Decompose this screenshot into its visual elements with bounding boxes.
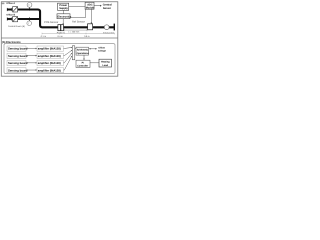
box Electronics: [57, 14, 70, 19]
bar end cap: [114, 24, 115, 31]
svg-text:Operations: Operations: [77, 52, 90, 55]
svg-text:Load: Load: [103, 64, 109, 67]
electronics enclosure box: [4, 44, 115, 74]
MUX box: [72, 46, 75, 60]
sensing board box 1: [7, 46, 26, 51]
svg-text:(a): (a): [2, 2, 5, 5]
wire amplifier 3 to MUX: [64, 54, 72, 63]
svg-text:Offset: Offset: [98, 46, 105, 49]
wire MUX to arithmetic: [75, 48, 76, 50]
amplifier box 2: [37, 53, 64, 58]
svg-text:amplifier (INA128): amplifier (INA128): [38, 55, 61, 58]
svg-text:x = 250 mm: x = 250 mm: [68, 31, 79, 34]
wire: office B duct to bus: [18, 18, 40, 20]
svg-text:Office B: Office B: [6, 14, 15, 17]
wire amplifier 1 to MUX: [64, 47, 72, 50]
svg-text:Control Room (b): Control Room (b): [8, 25, 25, 28]
svg-text:amplifier (INA128): amplifier (INA128): [38, 69, 61, 72]
damper box office A: [13, 7, 18, 12]
arrow sensing 2 to amplifier 2: [26, 55, 36, 57]
svg-text:Heating: Heating: [101, 61, 110, 64]
wire power supply to ADC: [69, 5, 85, 7]
arrow sensing 4 to amplifier 4: [26, 69, 36, 71]
svg-text:0.8 m: 0.8 m: [84, 35, 89, 38]
svg-text:Arithmetic: Arithmetic: [77, 49, 89, 52]
svg-text:0.4 m: 0.4 m: [58, 35, 63, 38]
sensing board box 2: [7, 53, 26, 58]
damper box office B: [13, 17, 18, 22]
thermocouple circle on bar: [104, 25, 109, 30]
svg-text:Pt100 T1: Pt100 T1: [57, 31, 66, 34]
ref sensor box on bar: [88, 24, 93, 30]
wire PI controller to heating load: [90, 62, 99, 64]
dimension bracket x = 250 mm: [65, 29, 88, 32]
svg-text:Module: Module: [86, 6, 95, 9]
arrow arithmetic down to PI controller: [83, 55, 85, 59]
svg-text:Ref Sensor: Ref Sensor: [72, 20, 85, 23]
svg-text:0.1 m: 0.1 m: [41, 35, 46, 38]
outer figure border: [1, 2, 118, 76]
box Power Supply: [58, 3, 69, 10]
wire power supply to electronics: [62, 10, 64, 14]
heater R2 office B: [7, 17, 12, 20]
svg-text:PI: PI: [82, 61, 85, 64]
box Heating Load: [99, 59, 112, 67]
svg-text:Controller: Controller: [77, 65, 88, 68]
svg-text:Sensing board: Sensing board: [8, 61, 28, 65]
svg-text:amplifier (INA128): amplifier (INA128): [38, 62, 61, 65]
panel divider line: [1, 37, 118, 39]
box Arithmetic Operations: [76, 47, 89, 55]
PCB sensor package on bar: [58, 25, 64, 31]
svg-text:amplifier (INA128): amplifier (INA128): [38, 48, 61, 51]
wire electronics to ADC: [70, 9, 85, 18]
sensing board box 4: [7, 68, 26, 73]
node tick office B sensor: [28, 17, 30, 21]
box ADC Module: [85, 2, 94, 9]
svg-text:voltage: voltage: [98, 50, 107, 53]
dimension line under bar: [42, 33, 115, 35]
double arrow arithmetic to offset voltage: [90, 48, 97, 50]
svg-text:Sensing board: Sensing board: [8, 68, 28, 72]
sensing board box 3: [7, 60, 26, 65]
node tick office A sensor: [28, 7, 30, 10]
svg-text:Office A: Office A: [6, 2, 15, 5]
amplifier box 4: [37, 68, 64, 73]
sensor circle office A: [27, 3, 32, 8]
arrow sensing 1 to amplifier 1: [26, 47, 36, 49]
svg-text:Sensing board: Sensing board: [8, 47, 28, 51]
amplifier box 3: [37, 60, 64, 65]
wire: office A duct to bus and sensor bar: [18, 10, 114, 28]
box PI Controller: [76, 60, 90, 67]
wire electronics down to PCB sensor: [62, 19, 64, 25]
wire amplifier 4 to MUX: [64, 57, 72, 71]
amplifier box 1: [37, 46, 64, 51]
svg-text:Supply: Supply: [59, 7, 68, 10]
arrow ADC to central server: [94, 5, 100, 7]
wire ADC down to ref sensor: [90, 9, 92, 23]
wire amplifier 2 to MUX: [64, 51, 72, 56]
svg-text:PCB Sensor: PCB Sensor: [44, 21, 58, 24]
svg-text:Electronics: Electronics: [58, 15, 72, 18]
arrow sensing 3 to amplifier 3: [26, 62, 36, 64]
svg-text:Server: Server: [103, 7, 111, 10]
svg-text:Exhaust fan: Exhaust fan: [103, 31, 115, 34]
svg-text:Sensing board: Sensing board: [8, 54, 28, 58]
sensor circle control room: [27, 21, 32, 26]
heater R1 office A: [7, 8, 12, 11]
